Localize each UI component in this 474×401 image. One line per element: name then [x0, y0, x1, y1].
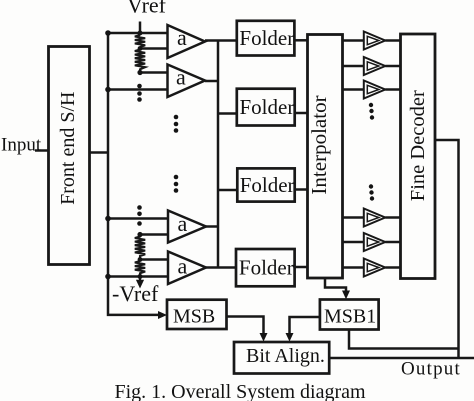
resistor Rt1 zigzag: [135, 35, 145, 47]
comparator K4: [364, 209, 386, 227]
wire: K1 to Fine Decoder: [385, 39, 400, 42]
block: Bit Align: [234, 342, 329, 374]
svg-text:a: a: [177, 25, 187, 50]
junction dot ladder tap 2: [138, 46, 143, 51]
svg-text:Input: Input: [1, 135, 42, 156]
wire: collector to Folder3: [218, 189, 237, 192]
arrowhead: interpolator into MSB1: [342, 291, 350, 300]
junction dot ladder tap C: [138, 257, 143, 262]
wire: ladder tap line 2 to preamp A1 lower input: [140, 47, 168, 50]
wire: bus tap line 1 to preamp A1 upper input: [108, 32, 168, 35]
junction dot ladder lineD crossing: [138, 274, 143, 279]
resistor Rb2 zigzag: [135, 261, 145, 282]
wire: A2 output to collector: [205, 80, 219, 83]
junction dot bus/lineD: [105, 274, 111, 280]
arrowhead: MSB1 into Bit Align: [286, 333, 294, 342]
wire: Folder4 to Interpolator: [295, 266, 308, 269]
wire: K5 to Fine Decoder: [385, 241, 400, 244]
svg-text:Output: Output: [401, 359, 461, 380]
resistor Rt2 zigzag: [135, 50, 145, 73]
junction dot bus/lineA: [105, 216, 111, 222]
wire: K3 to Fine Decoder: [385, 88, 400, 91]
wire: K6 to Fine Decoder: [385, 266, 400, 269]
svg-text:-Vref: -Vref: [112, 281, 159, 306]
wire: bus tap line 4 to preamp A2 lower input: [108, 88, 168, 91]
wire: Interpolator to comparator K4: [343, 216, 364, 219]
svg-text:MSB: MSB: [173, 306, 215, 328]
svg-text:Folder: Folder: [239, 255, 294, 279]
wire: bus tap line to preamp A3 upper input: [108, 217, 168, 220]
svg-text:a: a: [178, 254, 188, 279]
comparator K6: [364, 259, 386, 277]
wire: A4 output to Folder4: [206, 266, 236, 269]
svg-text:Vref: Vref: [127, 0, 167, 17]
ellipsis dots between preamp groups lower: [174, 175, 179, 180]
arrowhead: bus into MSB: [158, 311, 167, 319]
wire: bus tap line to preamp A4 lower input: [108, 275, 168, 278]
arrowhead: MSB into Bit Align: [260, 333, 268, 342]
wire: Folder3 to Interpolator: [295, 188, 308, 191]
wire: K4 to Fine Decoder: [385, 216, 400, 219]
comparator K3: [364, 81, 386, 99]
wire: A3 output to collector: [206, 225, 219, 228]
svg-text:a: a: [176, 64, 186, 89]
block: Fine Decoder: [401, 34, 436, 279]
wire: Interpolator bottom to MSB1: [325, 278, 346, 295]
resistor ladder bottom: Rb1 zigzag: [135, 235, 145, 260]
junction dot bus/line4: [105, 87, 111, 93]
comparator K1: [364, 32, 386, 50]
preamp A1: [168, 25, 206, 58]
svg-text:Bit Align.: Bit Align.: [246, 345, 325, 367]
block: Folder 3: [237, 168, 294, 201]
wire: S/H output to input bus: [90, 151, 108, 154]
wire: Folder2 to Interpolator: [295, 112, 308, 115]
preamp A2: [168, 65, 206, 98]
block: MSB1: [320, 300, 379, 330]
wire: Input to S/H: [35, 149, 49, 152]
svg-text:MSB1: MSB1: [324, 306, 376, 328]
junction dot ladder tap B: [137, 232, 142, 237]
wire: K2 to Fine Decoder: [385, 65, 400, 68]
wire: Interpolator to comparator K1: [343, 39, 364, 42]
block: Folder 1: [237, 21, 295, 56]
junction dot ladder line1 crossing: [138, 31, 143, 36]
wire: Interpolator to comparator K2: [343, 65, 364, 68]
junction dot bus/line1: [105, 30, 111, 36]
svg-text:Folder: Folder: [239, 26, 294, 50]
comparator K5: [364, 233, 386, 251]
ladder bottom stem: [139, 277, 141, 282]
wire: MSB output to Bit Align: [227, 317, 264, 338]
wire: MSB1 output to Bit Align: [290, 317, 320, 337]
svg-text:Fig. 1. Overall System diagra: Fig. 1. Overall System diagram: [115, 381, 367, 401]
wire: collector vertical: [217, 41, 220, 268]
block: Interpolator: [308, 35, 343, 279]
block: Front end S/H: [49, 47, 90, 265]
wire: collector to Folder2: [218, 112, 237, 115]
wire: Folder1 to Interpolator: [294, 39, 307, 42]
block: Folder 4: [236, 249, 295, 286]
wire: A1 output to Folder1: [205, 39, 237, 42]
wire: ladder tap line to preamp A4 upper input: [140, 258, 168, 261]
wire: Interpolator to comparator K5: [343, 241, 364, 244]
ellipsis dots ladder bottom gap: [137, 205, 142, 210]
arrowhead: ladder bottom -Vref: [136, 280, 144, 289]
block: MSB: [167, 300, 227, 329]
wire: input bus vertical with turn to MSB arrow: [108, 33, 162, 315]
junction dot ladder tap 3: [137, 70, 142, 75]
svg-text:Fine Decoder: Fine Decoder: [407, 90, 429, 201]
svg-text:Folder: Folder: [240, 173, 295, 197]
svg-text:Folder: Folder: [240, 95, 295, 119]
svg-text:Front end S/H: Front end S/H: [57, 92, 79, 205]
wire: ladder tap line to preamp A3 lower input: [140, 233, 168, 236]
preamp A4: [168, 252, 206, 285]
wire: Interpolator to comparator K3: [343, 88, 364, 91]
ellipsis dots ladder top gap: [137, 84, 142, 89]
wire: Fine Decoder output right then down: [435, 140, 459, 358]
ellipsis dots comparator column lower: [369, 184, 373, 188]
block: Folder 2: [237, 89, 295, 126]
wire: Interpolator to comparator K6: [343, 266, 364, 269]
wire: MSB1 bottom to output node: [349, 330, 459, 349]
wire: ladder tap line 3 to preamp A2 upper input: [140, 71, 168, 74]
wire: Bit Align output line to right edge: [329, 357, 474, 360]
preamp A3: [168, 211, 206, 243]
comparator K2: [364, 57, 386, 75]
resistor ladder top: Vref stub: [139, 22, 142, 36]
ellipsis dots comparator column upper: [369, 103, 373, 107]
svg-text:a: a: [178, 211, 188, 236]
ellipsis dots between preamp groups upper: [174, 115, 179, 120]
svg-text:Interpolator: Interpolator: [307, 95, 331, 194]
